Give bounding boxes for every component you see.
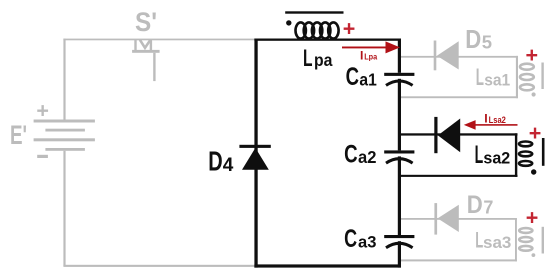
svg-text:pa: pa xyxy=(314,50,333,70)
wire: right rail segment 4 xyxy=(398,241,401,267)
svg-text:C: C xyxy=(344,141,358,169)
wire: branch3 right vertical xyxy=(515,218,517,261)
label Ca2 xyxy=(344,141,376,169)
svg-text:D: D xyxy=(208,144,222,176)
label battery minus xyxy=(37,155,48,158)
battery E' xyxy=(34,120,95,151)
label Lsa3 xyxy=(475,228,511,253)
svg-text:C: C xyxy=(346,63,359,91)
svg-text:L: L xyxy=(475,141,484,169)
label I_Lpa xyxy=(360,49,377,63)
wire: branch1 right vertical xyxy=(516,56,518,98)
label I_Lsa2 xyxy=(484,111,506,125)
inductor Lsa1 coil xyxy=(520,64,534,91)
label D4 xyxy=(208,144,234,176)
label Ca1 xyxy=(346,63,378,91)
inductor Lsa2 polarity dot xyxy=(531,169,536,174)
label Lsa1 xyxy=(476,64,511,91)
capacitor Ca3 xyxy=(384,235,414,248)
wire: right rail segment 2 xyxy=(398,79,401,151)
svg-text:L: L xyxy=(303,45,313,72)
label Lpa xyxy=(303,45,333,72)
capacitor Ca2 xyxy=(384,150,414,163)
svg-text:C: C xyxy=(344,225,357,253)
svg-text:+: + xyxy=(526,206,539,230)
current arrow I_Lpa xyxy=(342,41,400,53)
diode D6 cathode bar xyxy=(434,117,437,153)
svg-text:+: + xyxy=(343,17,356,41)
svg-text:5: 5 xyxy=(482,32,492,53)
capacitor Ca1 xyxy=(384,73,414,86)
svg-text:4: 4 xyxy=(223,155,234,176)
current arrow I_Lsa2 xyxy=(464,120,518,130)
wire: branch3 bottom xyxy=(401,259,517,261)
diode D6 xyxy=(438,119,460,153)
wire: primary top gray (S' rail) xyxy=(63,39,255,41)
svg-text:Lsa2: Lsa2 xyxy=(489,115,506,125)
svg-text:E': E' xyxy=(10,120,27,150)
wire: branch1 bottom xyxy=(401,96,518,98)
svg-text:7: 7 xyxy=(483,198,493,218)
diode D4 cathode bar xyxy=(239,145,270,148)
wire: right rail segment 1 xyxy=(398,39,401,73)
label Lsa2 xyxy=(475,141,511,169)
svg-text:L: L xyxy=(475,228,483,253)
svg-text:Lpa: Lpa xyxy=(364,52,377,62)
wire: branch2 bottom xyxy=(401,175,518,177)
diode D7 xyxy=(438,205,459,232)
wire: right rail segment 3 xyxy=(398,156,401,235)
inductor Lsa1 polarity dot xyxy=(532,92,536,96)
wire: primary bottom gray xyxy=(63,265,255,267)
svg-text:a3: a3 xyxy=(358,233,376,252)
wire: branch3 top gray xyxy=(401,218,517,220)
switch S' (MOSFET) xyxy=(132,39,160,81)
label D5 xyxy=(465,26,492,54)
diode D4 xyxy=(242,148,269,170)
wire: bottom black xyxy=(254,264,401,267)
svg-text:I: I xyxy=(484,111,487,125)
wire: top black (Lpa rail) xyxy=(254,39,401,41)
wire: primary left lower vertical xyxy=(63,151,65,266)
wire: branch1 top gray xyxy=(401,56,518,58)
label Ca3 xyxy=(344,225,376,253)
svg-text:D: D xyxy=(465,26,481,54)
inductor Lpa polarity dot xyxy=(286,20,291,25)
svg-text:sa3: sa3 xyxy=(483,233,511,252)
inductor Lsa2 core bar xyxy=(542,138,545,166)
wire: left vertical black (node A to bottom) xyxy=(254,39,257,268)
svg-text:+: + xyxy=(526,43,539,67)
wire: primary left upper vertical xyxy=(63,39,65,120)
inductor Lpa core bar xyxy=(285,11,343,13)
inductor Lsa1 core bar xyxy=(541,63,543,90)
svg-text:sa1: sa1 xyxy=(484,72,510,90)
svg-text:a2: a2 xyxy=(358,147,376,167)
inductor Lsa3 coil xyxy=(519,228,532,251)
svg-text:D: D xyxy=(467,191,483,219)
wire: branch2 top black xyxy=(401,133,518,135)
diode D7 cathode bar xyxy=(434,203,437,235)
inductor Lsa3 polarity dot xyxy=(532,253,536,257)
diode D5 xyxy=(437,41,459,69)
svg-text:sa2: sa2 xyxy=(483,149,510,168)
svg-text:S': S' xyxy=(135,7,157,37)
svg-text:I: I xyxy=(360,49,363,63)
diode D5 cathode bar xyxy=(434,41,437,71)
wire: branch2 right vertical xyxy=(515,133,517,177)
inductor Lpa coil xyxy=(296,22,339,38)
label D7 xyxy=(467,191,494,219)
inductor Lsa2 coil xyxy=(519,142,532,166)
svg-text:L: L xyxy=(476,64,484,91)
svg-text:+: + xyxy=(529,121,542,145)
inductor Lsa3 core bar xyxy=(542,227,544,254)
svg-text:+: + xyxy=(36,98,49,122)
svg-text:a1: a1 xyxy=(359,70,377,89)
